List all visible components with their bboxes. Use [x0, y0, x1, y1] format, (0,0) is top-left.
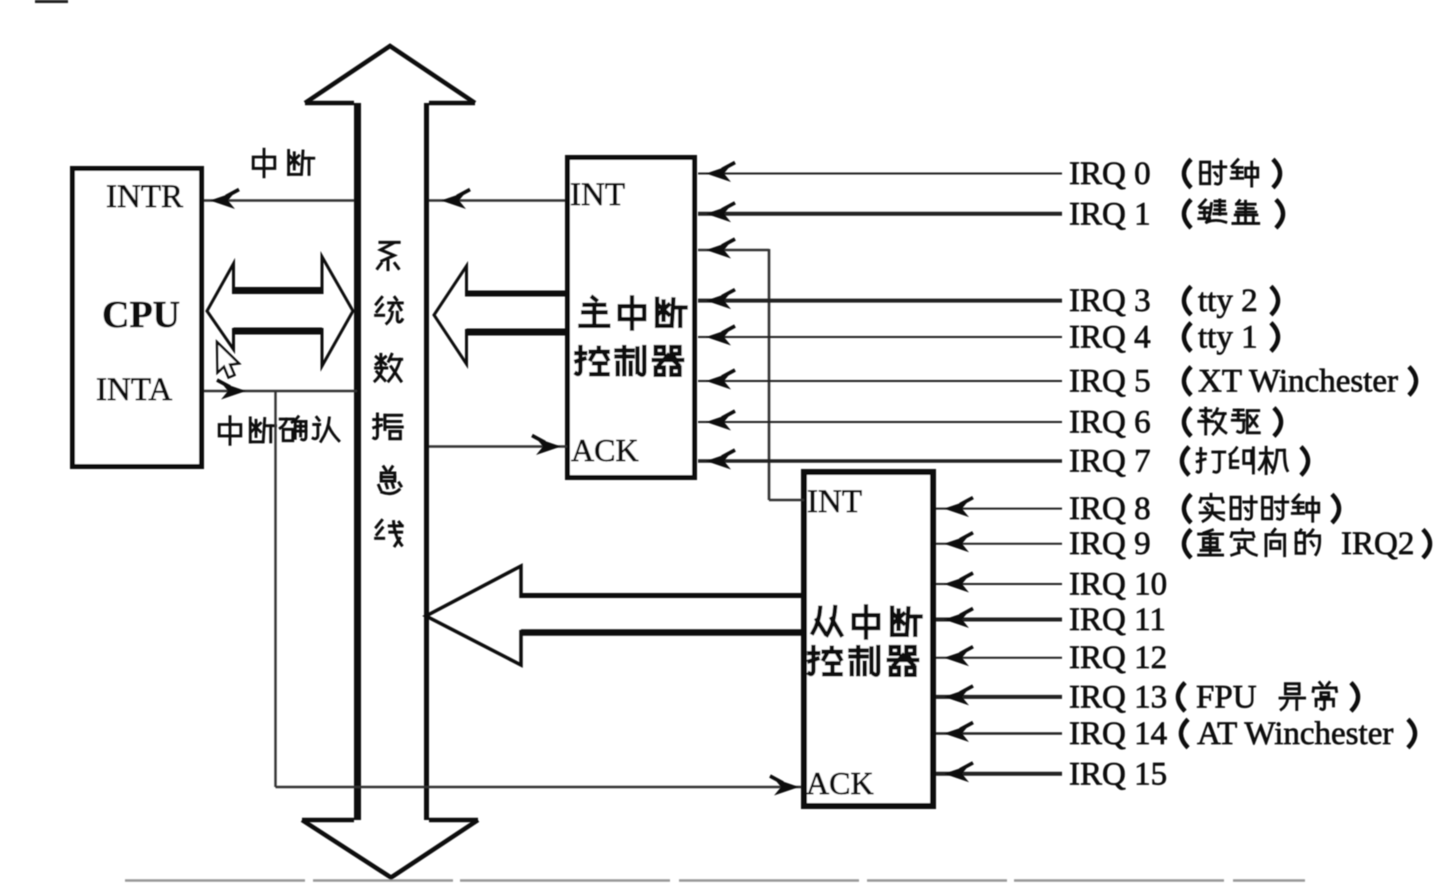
svg-text:IRQ 14: IRQ 14: [1069, 716, 1167, 752]
block arrow slave-bus: [426, 566, 804, 665]
label IRQ11: [1069, 602, 1166, 638]
wire ACK bus to master: [429, 436, 567, 456]
svg-text:IRQ 10: IRQ 10: [1069, 567, 1167, 603]
svg-text:ACK: ACK: [806, 765, 874, 801]
pin label INT (slave): [807, 484, 862, 520]
label IRQ6: [1069, 405, 1281, 441]
wire IRQ5: [698, 370, 1062, 390]
label IRQ7: [1069, 444, 1308, 480]
CPU box: [73, 169, 202, 467]
svg-text:tty 2: tty 2: [1198, 283, 1258, 319]
label 系统数据总线 (vertical): [374, 242, 403, 545]
wire IRQ3: [698, 290, 1062, 310]
wire IRQ13: [936, 686, 1062, 706]
slave interrupt controller box: [804, 472, 933, 806]
wire IRQ12: [936, 647, 1062, 667]
pin label ACK (slave): [806, 765, 874, 801]
svg-text:FPU: FPU: [1196, 679, 1257, 715]
svg-text:IRQ 4: IRQ 4: [1069, 320, 1151, 356]
label 主中断 (master): [580, 297, 685, 328]
wire IRQ14: [936, 723, 1062, 743]
svg-text:IRQ 12: IRQ 12: [1069, 640, 1167, 676]
svg-text:tty 1: tty 1: [1198, 320, 1258, 356]
svg-text:IRQ 7: IRQ 7: [1069, 444, 1151, 480]
block arrow master-bus: [434, 266, 567, 364]
wire IRQ15: [936, 763, 1062, 783]
wire IRQ10: [936, 573, 1062, 593]
wire interrupt-ack to slave ACK: [276, 776, 805, 796]
svg-text:IRQ2: IRQ2: [1341, 526, 1414, 562]
label 控制器 (slave): [809, 647, 917, 675]
pin label INTA: [96, 372, 172, 408]
label IRQ12: [1069, 640, 1167, 676]
label IRQ15: [1069, 756, 1167, 792]
wire IRQ0: [698, 163, 1062, 183]
wire IRQ8: [936, 498, 1062, 517]
svg-text:AT Winchester: AT Winchester: [1197, 716, 1393, 752]
wire IRQ7: [698, 450, 1062, 470]
system data bus arrow: [302, 46, 478, 878]
label IRQ9: [1069, 526, 1430, 562]
label IRQ14: [1069, 716, 1415, 752]
wire IRQ9: [936, 533, 1062, 553]
label IRQ1: [1069, 196, 1283, 232]
label 中断确认: [219, 417, 339, 445]
svg-text:IRQ 6: IRQ 6: [1069, 405, 1151, 441]
svg-text:XT Winchester: XT Winchester: [1198, 364, 1398, 400]
label IRQ5: [1069, 364, 1416, 400]
block arrow CPU-bus (bidirectional): [207, 257, 353, 366]
svg-text:ACK: ACK: [571, 432, 639, 468]
pin label ACK (master): [571, 432, 639, 468]
mouse cursor: [217, 342, 239, 378]
label IRQ3: [1069, 283, 1278, 319]
svg-text:IRQ 15: IRQ 15: [1069, 756, 1167, 792]
svg-text:IRQ 11: IRQ 11: [1069, 602, 1166, 638]
wire INTA from CPU to bus: [204, 380, 357, 400]
svg-text:INT: INT: [807, 484, 862, 520]
svg-text:INTR: INTR: [106, 179, 183, 215]
wire INTR from bus to CPU: [204, 190, 354, 210]
svg-text:IRQ 9: IRQ 9: [1069, 526, 1151, 562]
label IRQ13: [1069, 679, 1358, 715]
wire IRQ4: [698, 326, 1062, 346]
wire IRQ11: [936, 609, 1062, 629]
pin label INTR: [106, 179, 183, 215]
label CPU: [102, 294, 180, 336]
svg-text:INTA: INTA: [96, 372, 172, 408]
svg-text:IRQ 1: IRQ 1: [1069, 196, 1151, 232]
master interrupt controller box: [568, 158, 695, 478]
svg-text:IRQ 5: IRQ 5: [1069, 364, 1151, 400]
label 中断: [253, 149, 314, 177]
svg-text:IRQ 0: IRQ 0: [1069, 156, 1151, 192]
svg-text:CPU: CPU: [102, 294, 180, 336]
label IRQ10: [1069, 567, 1167, 603]
wire IRQ2 cascade master-slave: [698, 239, 804, 500]
svg-text:IRQ 3: IRQ 3: [1069, 283, 1151, 319]
wire INT master to bus: [429, 190, 567, 210]
svg-text:IRQ 13: IRQ 13: [1069, 679, 1167, 715]
label IRQ4: [1069, 320, 1278, 356]
pin label INT (master): [570, 177, 625, 213]
label 从中断 (slave): [813, 606, 921, 637]
svg-text:INT: INT: [570, 177, 625, 213]
wire interrupt-ack vertical: [274, 391, 276, 787]
wire IRQ1: [698, 203, 1062, 223]
label IRQ0: [1069, 156, 1280, 192]
svg-text:IRQ 8: IRQ 8: [1069, 491, 1151, 527]
label IRQ8: [1069, 491, 1339, 527]
label 控制器 (master): [576, 347, 682, 375]
wire IRQ6: [698, 411, 1062, 431]
